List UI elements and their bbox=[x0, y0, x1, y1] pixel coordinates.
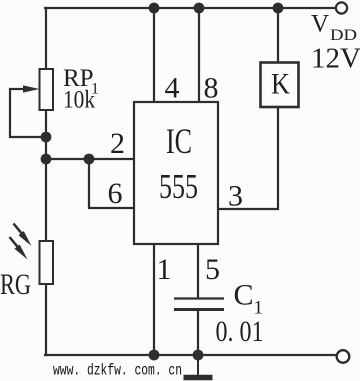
wire RP1 bottom down to RG top bbox=[45, 110, 47, 241]
wire C1 to ground rail bbox=[197, 311, 199, 355]
label VDD bbox=[311, 11, 357, 45]
svg-text:IC: IC bbox=[166, 121, 192, 161]
svg-text:10k: 10k bbox=[63, 87, 95, 114]
resistor RP1 body bbox=[40, 69, 54, 110]
svg-text:www. dzkfw. com. cn: www. dzkfw. com. cn bbox=[53, 362, 182, 380]
light arrow 1 onto RG bbox=[14, 224, 32, 247]
wire pin 8 from rail to IC bbox=[198, 8, 200, 102]
wire RP1 wiper arm bbox=[10, 89, 42, 137]
svg-text:5: 5 bbox=[205, 253, 220, 286]
wire RG bottom to ground rail bbox=[45, 284, 47, 355]
svg-text:3: 3 bbox=[228, 180, 243, 213]
wire bottom ground rail bbox=[45, 354, 337, 356]
svg-text:12V: 12V bbox=[311, 43, 360, 75]
wire pin 1 from IC to ground rail bbox=[153, 244, 155, 355]
svg-text:1: 1 bbox=[157, 253, 172, 286]
wire pin 4 from rail to IC bbox=[153, 8, 155, 102]
wire pin 2 from junction to IC bbox=[46, 158, 134, 160]
light arrow 2 onto RG bbox=[10, 237, 28, 260]
terminal VDD circle bbox=[336, 2, 347, 13]
wire top supply rail bbox=[45, 7, 336, 9]
wire pin 5 from IC to C1 bbox=[197, 244, 199, 298]
svg-text:V: V bbox=[311, 11, 329, 38]
svg-text:6: 6 bbox=[108, 177, 123, 210]
wire rail down to relay K bbox=[277, 8, 279, 63]
svg-text:2: 2 bbox=[110, 127, 125, 160]
wire pin 6 branch bbox=[89, 159, 134, 208]
ground symbol bbox=[184, 355, 213, 378]
capacitor C1 top plate bbox=[174, 297, 224, 299]
svg-text:DD: DD bbox=[330, 27, 357, 44]
wire pin 3 to relay K bbox=[218, 107, 278, 209]
op IC 555 box U1 bbox=[134, 102, 218, 244]
wire left branch from rail down to RP1 bbox=[45, 8, 47, 69]
label C1 bbox=[234, 279, 264, 319]
svg-text:0. 01: 0. 01 bbox=[216, 315, 264, 348]
svg-text:K: K bbox=[271, 68, 290, 101]
svg-text:8: 8 bbox=[204, 72, 219, 105]
capacitor C1 bottom plate bbox=[174, 308, 224, 311]
photoresistor RG body bbox=[40, 241, 54, 284]
svg-text:4: 4 bbox=[165, 72, 180, 105]
relay K box bbox=[261, 63, 299, 108]
terminal ground circle bbox=[337, 350, 350, 363]
svg-text:C: C bbox=[234, 279, 254, 312]
svg-text:RG: RG bbox=[0, 268, 31, 301]
label RP1 bbox=[63, 65, 99, 98]
arrowhead of RP1 wiper bbox=[23, 85, 40, 92]
svg-text:555: 555 bbox=[159, 167, 198, 206]
